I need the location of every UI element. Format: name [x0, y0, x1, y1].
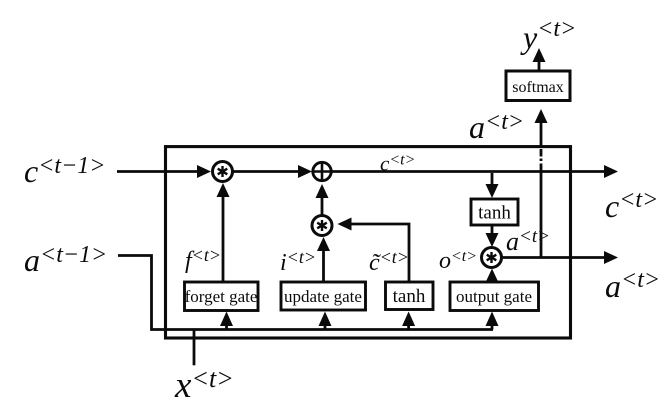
arrowhead feed to forget: [220, 312, 233, 327]
wire softmax to y: [538, 61, 541, 71]
arrowhead output gate to C4: [486, 269, 499, 283]
arrowhead forget to C1: [217, 183, 230, 197]
wire x input stem: [193, 330, 196, 366]
wire tanh2 down to C4: [491, 225, 494, 234]
arrowhead tanh2 to C4: [486, 233, 499, 247]
arrowhead elbow into C3: [338, 218, 352, 231]
arrowhead into C1: [197, 165, 211, 178]
wire tanh elbow to C3: [351, 224, 410, 282]
arrowhead into softmax: [535, 109, 548, 123]
svg-text:tanh: tanh: [478, 203, 511, 224]
arrowhead softmax to y: [533, 48, 546, 62]
wire feed arrows stems: [225, 326, 228, 330]
box tanh1: [386, 282, 434, 310]
box output gate: [450, 282, 539, 311]
wire C1 to C2: [234, 170, 301, 173]
arrowhead c out: [604, 165, 618, 178]
arrowhead C3 to C2: [316, 184, 329, 198]
wire a output line: [502, 256, 605, 259]
arrowhead feed to update: [319, 312, 332, 327]
svg-text:tanh: tanh: [393, 286, 426, 307]
wire a-prev input: [118, 256, 493, 330]
arrowhead into C2: [298, 165, 312, 178]
op C3 multiply: [312, 216, 332, 236]
wire softmax branch solid upper: [540, 122, 543, 147]
wire output gate up to C4: [491, 280, 494, 282]
wire forget gate up to C1: [222, 196, 225, 282]
arrowhead feed to output: [486, 312, 499, 327]
svg-text:forget gate: forget gate: [185, 287, 258, 306]
arrowhead feed to tanh1: [402, 312, 415, 327]
op C1 multiply: [213, 162, 233, 182]
box update gate: [281, 282, 366, 310]
arrowhead update to C3: [317, 237, 330, 251]
wire softmax branch dash-dot: [540, 149, 543, 157]
op C4 multiply: [482, 248, 502, 268]
svg-text:update gate: update gate: [284, 287, 362, 306]
box tanh2: [471, 199, 518, 225]
arrowhead a out: [604, 251, 618, 264]
wire c input: [117, 170, 198, 173]
wire c-line down to tanh2: [491, 173, 494, 185]
wire C3 up to C2: [321, 197, 324, 215]
op C2 add: [313, 162, 331, 180]
arrowhead into tanh2: [486, 184, 499, 198]
cell box: [166, 147, 571, 338]
wire c-line to right output: [332, 170, 606, 173]
wire update gate up to C3: [322, 249, 325, 282]
box forget gate: [185, 282, 259, 311]
svg-text:softmax: softmax: [512, 79, 564, 96]
svg-text:output gate: output gate: [456, 287, 532, 306]
wire softmax branch solid lower: [540, 172, 543, 258]
box softmax: [506, 71, 570, 101]
